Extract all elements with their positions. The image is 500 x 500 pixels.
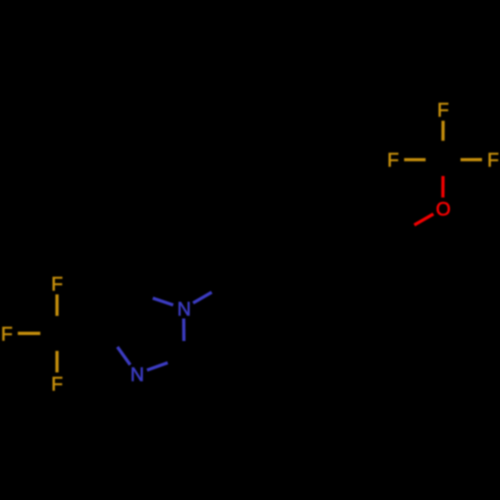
svg-text:F: F [387,151,399,172]
svg-text:O: O [436,200,451,221]
wire bond N3-C2 half [147,363,168,370]
svg-text:F: F [437,101,449,122]
wire bond N1-C2 half [182,319,185,342]
wire bond O-aryl half [414,214,433,225]
svg-text:F: F [487,151,499,172]
wire bond N1-C5 half [153,298,173,305]
svg-text:N: N [130,365,144,386]
wire bond N1-CH2 half [193,292,212,303]
wire bond F5-C half [404,158,426,161]
svg-text:F: F [51,374,63,395]
svg-text:F: F [51,274,63,295]
wire bond F2-C half [18,332,41,335]
wire bond F3-C half [55,351,58,373]
wire bond F6-C half [461,158,483,161]
svg-text:N: N [177,300,191,321]
wire bond F4-C half [441,121,444,141]
wire bond O-CF3 half [441,176,444,198]
wire bond N3-C4 half [117,347,130,365]
wire bond F1-C half [55,294,58,316]
svg-text:F: F [1,324,13,345]
